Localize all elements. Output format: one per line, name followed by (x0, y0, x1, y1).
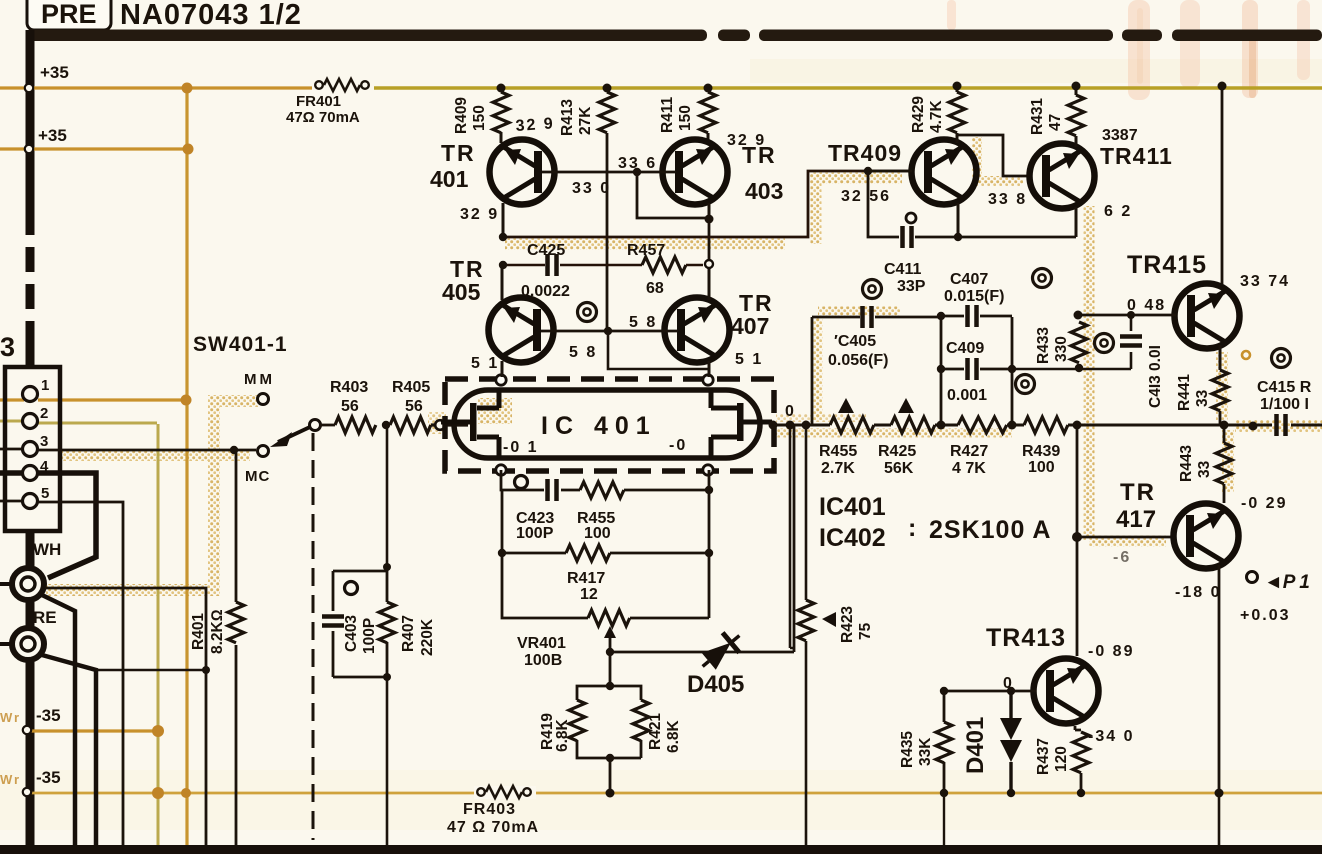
orange vertical feed x186 (185, 88, 188, 845)
svg-text:Wr: Wr (0, 710, 21, 725)
capacitor C423 (548, 479, 557, 501)
svg-text:R425: R425 (878, 443, 916, 460)
feedback row C423/R455 (501, 470, 709, 490)
svg-text:R413: R413 (559, 99, 576, 136)
wire C403 branch down from R403/R405 node (386, 425, 389, 845)
svg-text:5 1: 5 1 (471, 355, 499, 372)
svg-text:8.2KΩ: 8.2KΩ (209, 609, 226, 654)
resistor R413 (606, 88, 609, 328)
svg-text:SW401-1: SW401-1 (193, 333, 288, 356)
svg-text:0 48: 0 48 (1127, 297, 1166, 314)
TR415 collector feed from rail (1221, 86, 1224, 284)
svg-text:-0 89: -0 89 (1088, 643, 1134, 660)
svg-text:R407: R407 (400, 615, 417, 652)
svg-text:MC: MC (245, 468, 270, 485)
svg-text:TR411: TR411 (1100, 143, 1173, 169)
transistor TR415 (1175, 284, 1240, 349)
svg-text:C411: C411 (884, 261, 921, 278)
wire TR403 emitter down to R457 node (708, 219, 711, 262)
resistor R419 (569, 700, 585, 741)
capacitor C415 (output) (1277, 414, 1286, 436)
resistor R403 (320, 424, 335, 427)
handwritten voltage annotations (460, 115, 1290, 745)
svg-text:′C405: ′C405 (834, 333, 876, 350)
TR415 base wire (1078, 314, 1176, 317)
svg-text:0.015(F): 0.015(F) (944, 288, 1004, 305)
svg-text:+0.03: +0.03 (1240, 607, 1290, 624)
svg-text:401: 401 (430, 166, 469, 192)
resistor R455 (series) (830, 417, 874, 433)
potentiometer VR401 (588, 610, 630, 626)
R423 branch (790, 425, 806, 845)
svg-text:C4I3 0.0I: C4I3 0.0I (1147, 345, 1164, 408)
TR401-TR403 base wire (542, 171, 676, 174)
svg-text:MM: MM (244, 371, 275, 388)
pin 3 (23, 442, 38, 457)
R435 branch (943, 691, 946, 793)
svg-text:R411: R411 (659, 96, 676, 133)
IC401 left JFET (441, 389, 499, 459)
svg-text:R421: R421 (647, 713, 664, 750)
transistor TR409 (912, 140, 977, 205)
svg-text:-35: -35 (36, 768, 61, 787)
svg-text:1: 1 (41, 377, 49, 394)
svg-text:R457: R457 (627, 242, 665, 259)
IC401 right JFET (711, 389, 772, 459)
C411 row (868, 171, 1076, 237)
svg-text:-6: -6 (1113, 549, 1131, 566)
svg-text:403: 403 (745, 178, 783, 204)
IC401 box corner nodes (496, 375, 713, 475)
svg-text:100: 100 (584, 525, 611, 542)
TR401 collector wire to R409 (500, 132, 503, 143)
svg-text:D401: D401 (962, 717, 989, 774)
VR401 row (502, 553, 709, 618)
transistor TR401 (490, 140, 555, 205)
resistor R455 (feedback) (580, 482, 624, 498)
resistor R423 (798, 600, 814, 641)
svg-text:5: 5 (41, 485, 49, 502)
tan highlight trace: signal row (776, 429, 1012, 438)
svg-text:5 1: 5 1 (735, 351, 763, 368)
svg-text:TR413: TR413 (986, 624, 1066, 652)
orange small circle near C415 (1242, 351, 1250, 359)
svg-text:47 Ω 70mA: 47 Ω 70mA (447, 819, 539, 836)
resistor R433 (1071, 322, 1087, 363)
C405/C407 row (812, 316, 1012, 425)
orange junction dots (152, 83, 194, 800)
capacitor C425 row (503, 264, 642, 267)
svg-text:12: 12 (580, 586, 598, 603)
svg-text:C407: C407 (950, 271, 988, 288)
test point TP (between TR405/TR407) (578, 303, 597, 322)
resistor R431 (1075, 86, 1078, 147)
pink scan smudges top right (947, 0, 1310, 100)
resistor R435 (936, 722, 952, 763)
test point TP (C415) (1272, 349, 1291, 368)
svg-text:+35: +35 (38, 126, 67, 145)
resistor R411 (707, 88, 710, 143)
svg-text:R433: R433 (1035, 327, 1052, 364)
capacitor C403 / resistor R407 parallel loop (333, 567, 387, 677)
svg-text:-35: -35 (36, 706, 61, 725)
TR411 emitter wire (1075, 207, 1078, 237)
svg-text:-0 1: -0 1 (503, 439, 539, 456)
TR403 base elbow to emitter row (637, 172, 708, 218)
svg-text:5 8: 5 8 (569, 344, 597, 361)
RE row wire (96, 669, 206, 671)
TR405-TR407 base wire (541, 330, 678, 333)
IC401 stadium body (454, 390, 760, 458)
rail node R413 (603, 84, 612, 93)
tan highlight trace: C425/R457 feedback row (505, 239, 785, 250)
svg-text:407: 407 (731, 313, 769, 339)
tan highlight trace: C405 corner (818, 311, 900, 420)
svg-text:2: 2 (40, 405, 48, 422)
test point TP (right of C407) (1033, 269, 1052, 288)
svg-text:0.056(F): 0.056(F) (828, 352, 888, 369)
connector J403 box (5, 367, 60, 531)
fuse resistor FR401 (312, 79, 374, 92)
C403 open terminal (345, 582, 358, 595)
svg-text:68: 68 (646, 280, 664, 297)
svg-text:0: 0 (1003, 675, 1014, 692)
svg-text:PRE: PRE (41, 0, 97, 29)
pin3 wire to MC (0, 449, 256, 450)
svg-text:R405: R405 (392, 379, 430, 396)
node circles on bus (23, 84, 33, 796)
pin1 orange wire (38, 398, 186, 401)
-35 rail (bottom, full width) (29, 792, 1322, 795)
svg-text:C415 R: C415 R (1257, 379, 1312, 396)
svg-text:6.8K: 6.8K (665, 719, 682, 753)
svg-text:6.8K: 6.8K (554, 718, 571, 752)
TR401 emitter wire down (502, 203, 505, 240)
TR417 base wire (1077, 536, 1176, 539)
resistor R421 (633, 700, 649, 741)
svg-text:2.7K: 2.7K (821, 460, 855, 477)
svg-text:100B: 100B (524, 652, 562, 669)
svg-text:6 2: 6 2 (1104, 203, 1132, 220)
svg-text:0.001: 0.001 (947, 387, 987, 404)
svg-text:0: 0 (785, 403, 796, 420)
svg-text:R443: R443 (1178, 445, 1195, 482)
resistor R439 (1024, 417, 1068, 433)
svg-text:C409: C409 (946, 340, 984, 357)
TR403 emitter wire (708, 203, 711, 219)
svg-text:-34 0: -34 0 (1088, 728, 1134, 745)
tan highlight trace: pin3 row (62, 449, 250, 461)
svg-text:+35: +35 (40, 63, 69, 82)
pin 2 (23, 414, 38, 429)
+35 rail (yellow right part) (366, 86, 1322, 89)
svg-text:33 6: 33 6 (618, 155, 657, 172)
+35 second feed line (0, 149, 189, 400)
pin 1 (23, 387, 38, 402)
base row drop wire (608, 331, 709, 369)
transistor TR411 (1030, 144, 1095, 209)
TR415 emitter wire (1219, 345, 1222, 370)
capacitor C405 (863, 306, 872, 328)
tan highlight trace: TR415 emitter / R441 R443 column and output row (1222, 352, 1322, 492)
resistor R443 (1223, 425, 1226, 443)
svg-text:47Ω 70mA: 47Ω 70mA (286, 109, 360, 126)
+35 rail (top, orange left part) (0, 86, 316, 89)
svg-text:33: 33 (1194, 389, 1211, 407)
svg-text:Wr: Wr (0, 772, 21, 787)
tan highlight trace: R429 to TR411 base (972, 137, 1023, 181)
svg-text:33 8: 33 8 (988, 191, 1027, 208)
IC401 dashed box (445, 379, 774, 471)
svg-text:R417: R417 (567, 570, 605, 587)
svg-text:32 9: 32 9 (460, 206, 499, 223)
switch lever with arrow (278, 427, 310, 442)
resistor R425 (891, 417, 935, 433)
svg-text:◄P 1: ◄P 1 (1264, 572, 1310, 593)
diode D401 (double) (1009, 691, 1012, 793)
svg-text:R441: R441 (1176, 374, 1193, 411)
marker triangle over R425 (898, 398, 914, 413)
dashed line from switch down (312, 433, 315, 840)
RE shield connector (0, 628, 44, 660)
WH shield lead to ground (42, 595, 75, 845)
svg-text:33 0: 33 0 (572, 180, 611, 197)
svg-text:150: 150 (677, 105, 694, 131)
svg-text:32 56: 32 56 (841, 188, 891, 205)
resistor R457 (642, 257, 686, 273)
svg-text:-18 0: -18 0 (1175, 584, 1221, 601)
svg-text:R429: R429 (910, 96, 927, 133)
top thick dashed border bar (26, 30, 1322, 42)
svg-text:56: 56 (405, 398, 423, 415)
svg-text:100: 100 (1028, 459, 1055, 476)
input open node (435, 420, 445, 430)
svg-text:47: 47 (1047, 114, 1064, 131)
node R403/R405 (382, 421, 390, 429)
svg-text:32 9: 32 9 (727, 132, 766, 149)
MC junction dot (230, 446, 238, 454)
svg-text:R409: R409 (453, 97, 470, 134)
C409 row (941, 369, 1012, 425)
svg-text:33 74: 33 74 (1240, 273, 1290, 290)
wiper junction dot (606, 648, 614, 656)
tan highlight patch: IC401 input (478, 398, 512, 424)
svg-text:3387: 3387 (1102, 127, 1138, 144)
svg-text:75: 75 (857, 622, 874, 640)
svg-text:D405: D405 (687, 671, 744, 698)
capacitor C407 (968, 305, 977, 327)
resistor R409 (500, 88, 503, 92)
output terminal P1 (1247, 572, 1258, 583)
svg-text:R427: R427 (950, 443, 988, 460)
MC wire down (R401 branch) (235, 451, 238, 845)
svg-text:4.7K: 4.7K (928, 99, 945, 133)
R419/R421 parallel pair (577, 652, 641, 793)
svg-text:5 8: 5 8 (629, 314, 657, 331)
svg-text:1/100 I: 1/100 I (1260, 396, 1309, 413)
resistor R407 (379, 602, 395, 643)
svg-text:IC401: IC401 (819, 493, 886, 521)
transistor TR403 (663, 140, 728, 205)
resistor R429 (956, 86, 959, 143)
svg-text:56K: 56K (884, 460, 914, 477)
marker triangle over R455 (838, 398, 854, 413)
resistor R401 (228, 602, 244, 643)
main signal line (772, 424, 1322, 427)
rail node R411 (704, 84, 713, 93)
svg-text:C425: C425 (527, 242, 565, 259)
resistor R437 (1075, 726, 1081, 730)
transistor TR417 (1174, 504, 1239, 569)
svg-text:417: 417 (1116, 506, 1156, 533)
svg-text:120: 120 (1053, 746, 1070, 772)
svg-text:3: 3 (0, 332, 15, 362)
resistor R427 (958, 417, 1007, 433)
tan highlight trace: TR409 base elbow (810, 178, 902, 244)
capacitor C413 (1130, 315, 1133, 331)
RE shield lead (42, 655, 96, 845)
svg-text:FR403: FR403 (463, 801, 516, 818)
svg-text:3: 3 (40, 433, 48, 450)
svg-text:100P: 100P (361, 618, 378, 654)
transistor TR413 (1034, 659, 1099, 724)
svg-text:27K: 27K (577, 106, 594, 135)
transistor TR407 (665, 298, 730, 363)
svg-text:R439: R439 (1022, 443, 1060, 460)
tan highlight trace: TR411 emitter / right column down to TR417 (1089, 206, 1166, 541)
D405 row wire (610, 425, 794, 652)
transistor TR405 (489, 298, 554, 363)
svg-text:TR409: TR409 (828, 140, 902, 166)
svg-text:220K: 220K (419, 618, 436, 656)
TR417 emitter wire down (1218, 565, 1221, 793)
svg-text:33K: 33K (917, 737, 934, 766)
svg-text:VR401: VR401 (517, 635, 566, 652)
resistor R441 (1212, 370, 1228, 411)
test point TP (below C409) (1016, 375, 1035, 394)
rail node R409 (497, 84, 506, 93)
pin 4 (23, 466, 38, 481)
TR405 emitter wire to IC node (501, 361, 504, 377)
svg-text:FR401: FR401 (296, 93, 341, 110)
svg-text:IC 401: IC 401 (541, 412, 657, 440)
left thick vertical bus (26, 30, 35, 850)
wire R405 to IC input (431, 423, 468, 426)
svg-text:R435: R435 (899, 731, 916, 768)
svg-text:TR415: TR415 (1127, 251, 1207, 279)
svg-text:4 7K: 4 7K (952, 460, 986, 477)
svg-text:NA07043 1/2: NA07043 1/2 (120, 0, 302, 31)
svg-text:33P: 33P (897, 278, 926, 295)
fuse resistor FR403 (474, 786, 536, 799)
svg-text:RE: RE (33, 608, 57, 627)
capacitor C409 (968, 358, 977, 380)
signal junction dots (769, 421, 1258, 431)
svg-text:2SK100 A: 2SK100 A (929, 516, 1051, 544)
test point TP (left of C407) (863, 280, 882, 299)
pin2 pale wire turning down (0, 421, 158, 845)
C409 row extension to R433 bottom (1012, 352, 1131, 369)
diode D405 (694, 626, 747, 677)
TR407 collector wire (708, 265, 711, 300)
svg-text:150: 150 (471, 105, 488, 131)
svg-text:R437: R437 (1035, 738, 1052, 775)
capacitor C411 (903, 226, 912, 248)
TR409 base wire (868, 170, 912, 173)
TR409 emitter wire (957, 203, 960, 237)
-35 feed line 1 (29, 729, 158, 732)
TR413 collector riser / TR417 base column (1076, 425, 1079, 656)
R417 row (502, 490, 709, 553)
WH shield connector (0, 568, 44, 600)
tan highlight trace: MM loop down to WH (46, 401, 258, 590)
svg-text::: : (908, 514, 916, 542)
svg-text:330: 330 (1053, 336, 1070, 362)
pin 5 (23, 494, 38, 509)
pin5 wire (0, 501, 123, 845)
feedback long wire y237 (503, 171, 910, 237)
svg-text:R431: R431 (1029, 98, 1046, 135)
TR407 emitter wire to IC node (708, 361, 711, 377)
TR413 base wire (944, 690, 1036, 693)
svg-text:TR: TR (441, 140, 476, 166)
pin4 thick wire to WH shield (0, 473, 96, 578)
svg-text:R455: R455 (819, 443, 857, 460)
title box PRE (27, 0, 111, 30)
resistor R405 (390, 417, 431, 433)
svg-text:-0 29: -0 29 (1241, 495, 1287, 512)
TR405 collector wire (501, 265, 504, 300)
svg-text:R403: R403 (330, 379, 368, 396)
svg-text:0.0022: 0.0022 (521, 283, 570, 300)
svg-text:IC402: IC402 (819, 524, 886, 552)
svg-text:TR: TR (1120, 479, 1156, 506)
svg-text:WH: WH (33, 540, 61, 559)
svg-text:R401: R401 (190, 613, 207, 650)
svg-text:-0: -0 (669, 437, 687, 454)
svg-text:100P: 100P (516, 525, 554, 542)
svg-text:33: 33 (1196, 460, 1213, 478)
svg-text:R423: R423 (839, 606, 856, 643)
WH wire right (45, 588, 206, 845)
switch pivot (310, 420, 321, 431)
bottom thick border bar (0, 845, 1322, 854)
svg-text:405: 405 (442, 279, 481, 305)
test point TP (C413) (1095, 334, 1114, 353)
svg-text:56: 56 (341, 398, 359, 415)
resistor R417 (566, 545, 610, 561)
R429 elbow to TR411 base (957, 135, 1028, 176)
svg-text:C403: C403 (343, 615, 360, 652)
svg-text:32 9: 32 9 (515, 115, 555, 135)
